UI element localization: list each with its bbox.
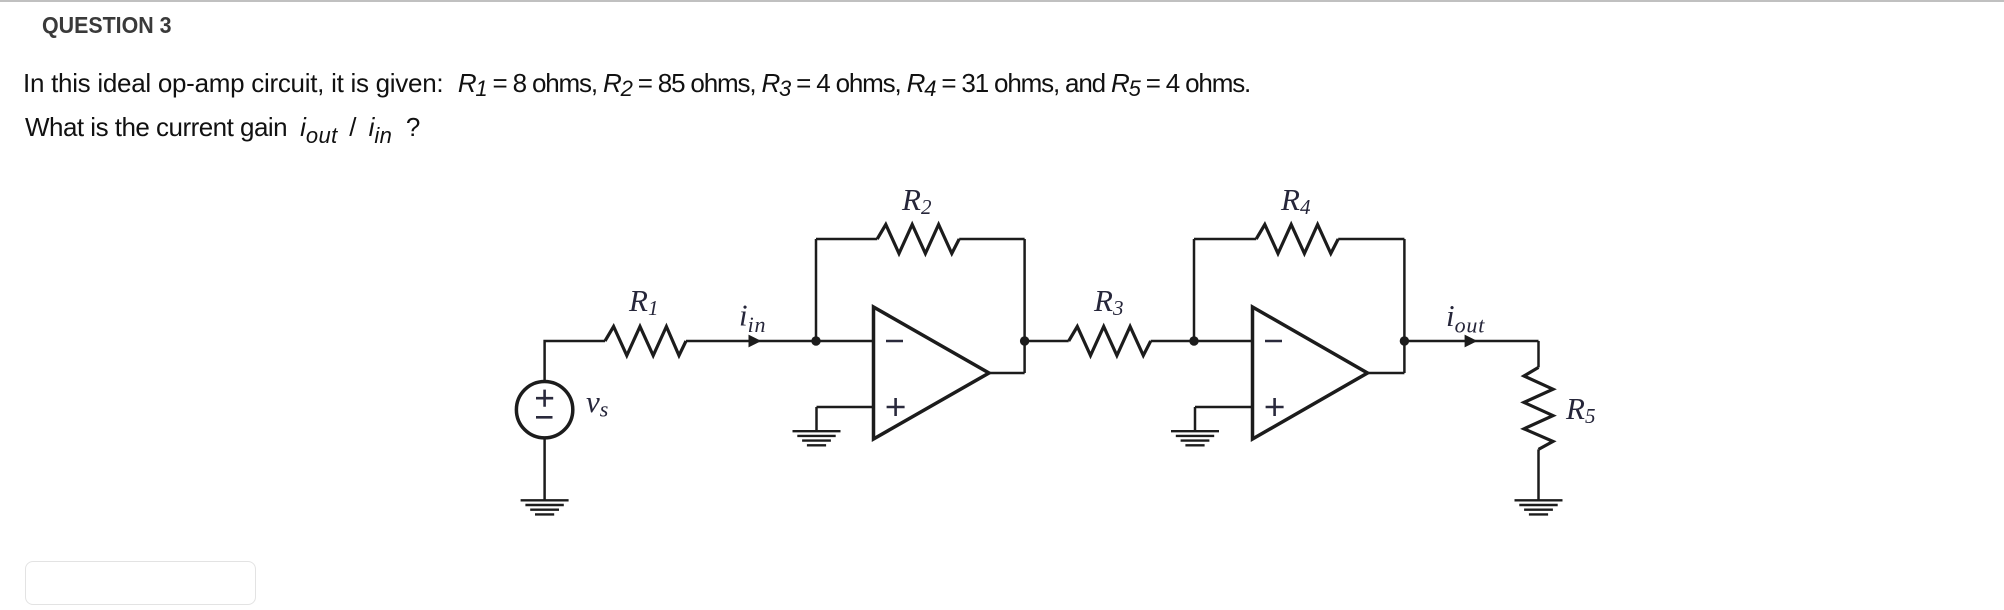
wire source to R1 xyxy=(545,341,605,382)
plus sign U1 xyxy=(887,398,905,416)
feedback top wire right segment U1 xyxy=(959,238,1024,241)
feedback top wire left segment U2 xyxy=(1194,238,1256,241)
resistor R2 xyxy=(877,225,959,254)
svg-text:iin: iin xyxy=(739,298,766,338)
question text line 1 xyxy=(23,70,1250,96)
minus sign inside source xyxy=(536,416,553,419)
wire node B to R3 xyxy=(1025,340,1069,343)
wire down to ground U2 xyxy=(1194,407,1197,431)
feedback top wire right segment U2 xyxy=(1338,238,1404,241)
plus sign U2 xyxy=(1266,398,1284,416)
wire R3 to node C xyxy=(1151,340,1194,343)
current arrow i_out xyxy=(1465,335,1478,348)
wire source bottom to ground xyxy=(543,437,546,500)
minus sign U1 xyxy=(886,340,903,343)
wire R5 to ground xyxy=(1537,449,1540,500)
question text line 2 xyxy=(25,114,420,140)
wire node C to op-amp U2 minus input xyxy=(1194,340,1253,343)
node B dot (U1 output) xyxy=(1020,336,1029,345)
node A dot (inverting input 1) xyxy=(811,336,820,345)
minus sign U2 xyxy=(1265,340,1282,343)
op-amp U2 triangle xyxy=(1253,307,1368,439)
svg-text:R4: R4 xyxy=(1280,182,1311,219)
top border line xyxy=(0,0,2004,2)
header xyxy=(42,14,172,37)
feedback right leg U1 xyxy=(1023,239,1026,373)
resistor R1 xyxy=(605,327,686,356)
svg-text:R3: R3 xyxy=(1093,283,1123,320)
ground (U2 plus input) xyxy=(1171,431,1219,445)
wire U2 output apex stub xyxy=(1368,372,1405,375)
wire ground stub to U2 plus input xyxy=(1195,406,1253,409)
wire node A to op-amp U1 minus input xyxy=(816,340,874,343)
op-amp U1 triangle xyxy=(874,307,990,439)
feedback left leg U2 xyxy=(1193,239,1196,341)
ground (R5) xyxy=(1515,500,1563,514)
resistor R4 xyxy=(1256,225,1338,254)
wire ground stub to U1 plus input xyxy=(817,406,874,409)
wire R1 to node A xyxy=(686,340,816,343)
ground (U1 plus input) xyxy=(793,431,841,445)
current arrow i_in xyxy=(749,335,762,348)
svg-text:R1: R1 xyxy=(628,283,658,320)
voltage source Vs circle xyxy=(516,382,572,438)
node C dot (inverting input 2) xyxy=(1189,336,1198,345)
node D dot (U2 output) xyxy=(1400,336,1409,345)
ground (source) xyxy=(521,500,569,514)
wire down to R5 xyxy=(1537,341,1540,367)
feedback top wire left segment U1 xyxy=(816,238,877,241)
svg-text:R2: R2 xyxy=(901,182,932,219)
svg-text:R5: R5 xyxy=(1565,391,1595,428)
resistor R5 xyxy=(1524,367,1553,449)
wire U1 output apex stub xyxy=(989,372,1025,375)
feedback left leg U1 xyxy=(815,239,818,341)
svg-text:vs: vs xyxy=(586,384,608,422)
svg-text:iout: iout xyxy=(1446,298,1485,338)
answer input box xyxy=(25,561,256,605)
plus sign inside source xyxy=(536,390,553,407)
feedback right leg U2 xyxy=(1403,239,1406,373)
wire down to ground U1 xyxy=(815,407,818,431)
wire node D to output corner xyxy=(1404,340,1538,343)
resistor R3 xyxy=(1069,327,1151,356)
